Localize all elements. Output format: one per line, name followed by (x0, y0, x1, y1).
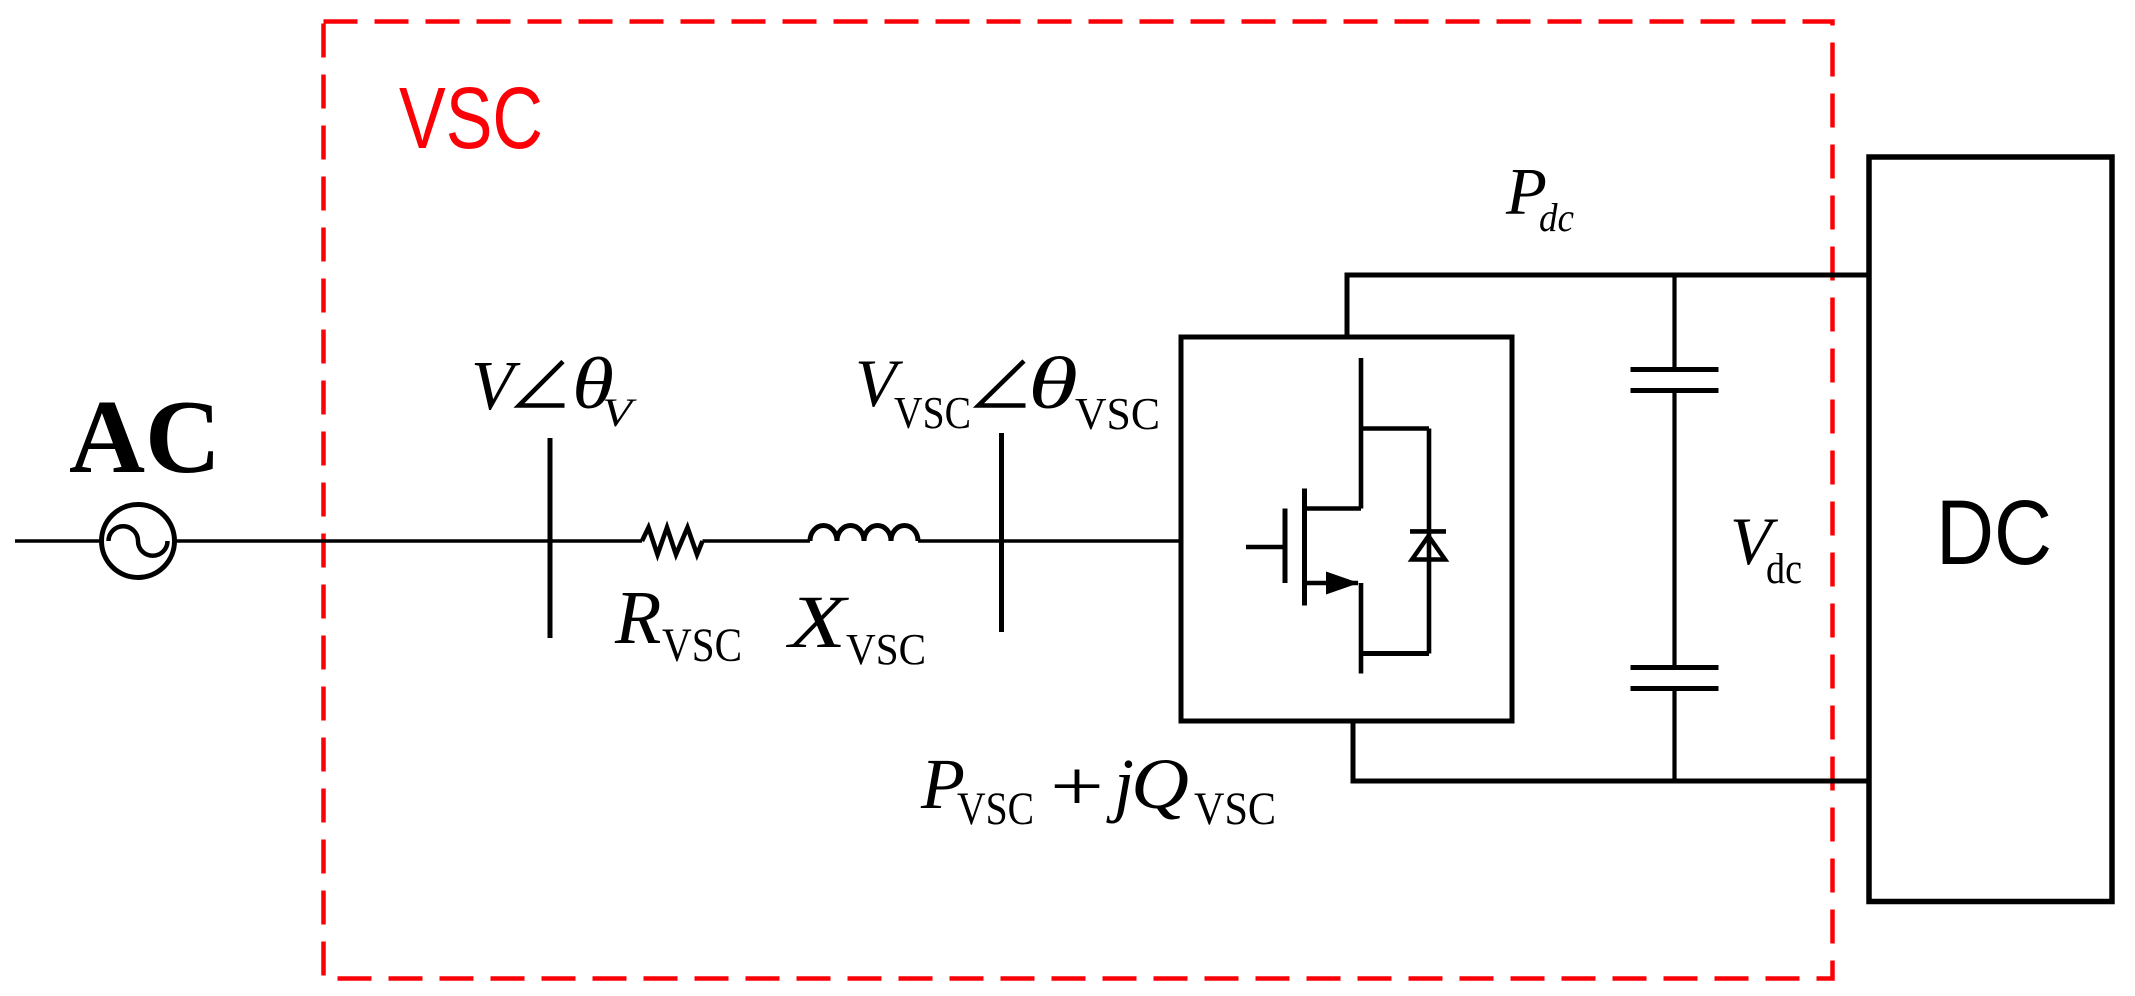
diode D1 cathode bar (1410, 529, 1446, 534)
capacitor C1 bottom plate (1631, 388, 1719, 393)
label V_VSC angle theta_VSC (855, 343, 1160, 439)
wire: resistor to inductor (703, 539, 811, 542)
diode D1 triangle (1412, 536, 1445, 560)
label P_dc (1505, 155, 1574, 241)
IGBT Q1 drain stub (1359, 358, 1364, 509)
wire: capacitor C1 to capacitor C2 (1672, 393, 1676, 666)
AC source circle (102, 505, 175, 578)
resistor R_VSC zigzag (642, 528, 703, 555)
svg-text:Q: Q (1131, 744, 1189, 824)
capacitor C1 top plate (1631, 367, 1719, 372)
svg-text:VSC: VSC (1075, 388, 1160, 439)
svg-text:VSC: VSC (894, 387, 971, 438)
svg-text:AC: AC (69, 378, 221, 495)
wire: capacitor C2 to dc- rail (1672, 691, 1676, 783)
diode D1 column (1427, 429, 1432, 654)
svg-text:R: R (614, 576, 661, 660)
DC box (1869, 157, 2112, 902)
svg-text:VSC: VSC (957, 783, 1034, 835)
svg-text:VSC: VSC (1194, 783, 1276, 835)
bus bar V (node V angle theta_V) (548, 438, 553, 638)
svg-text:θ: θ (1028, 343, 1078, 425)
IGBT gate lead (1246, 545, 1285, 550)
label P_VSC + jQ_VSC (920, 744, 1276, 835)
wire: left stub to AC source (15, 539, 102, 542)
svg-text:VSC: VSC (399, 70, 543, 167)
dc+ rail P_dc (1345, 273, 1870, 278)
wire: converter bottom to dc- rail (1351, 721, 1356, 781)
capacitor C2 bottom plate (1631, 686, 1719, 691)
wire: converter top to dc+ rail (1345, 275, 1350, 337)
label V angle theta_V (471, 343, 638, 435)
wire: source to diode bottom (1359, 651, 1429, 656)
IGBT channel bar (1302, 489, 1307, 606)
label V_dc (1730, 503, 1802, 593)
svg-text:+: + (1050, 746, 1104, 826)
IGBT source arrow (1326, 572, 1359, 595)
inductor X_VSC humps (810, 526, 918, 542)
VSC dashed boundary box (324, 22, 1833, 979)
IGBT drain horizontal (1305, 506, 1362, 511)
wire: drain junction to diode top (1359, 426, 1429, 431)
label R_VSC (614, 576, 742, 672)
svg-text:X: X (785, 581, 850, 664)
IGBT source vertical (1359, 583, 1364, 674)
capacitor C2 top plate (1631, 665, 1719, 670)
wire: dc+ rail to capacitor C1 (1672, 273, 1676, 368)
label X_VSC (785, 581, 926, 674)
svg-text:dc: dc (1539, 195, 1574, 240)
AC source sine wave (109, 526, 168, 556)
svg-text:dc: dc (1766, 546, 1802, 593)
wire: AC source to resistor (174, 539, 642, 542)
converter U1 box (1181, 337, 1512, 721)
svg-text:DC: DC (1936, 482, 2052, 584)
IGBT gate bar (1283, 509, 1288, 584)
wire: inductor to converter (918, 539, 1181, 542)
svg-text:VSC: VSC (846, 625, 926, 674)
dc- rail (1351, 779, 1870, 784)
svg-text:VSC: VSC (662, 619, 742, 672)
bus bar V_VSC (node V_VSC angle theta_VSC) (999, 433, 1004, 632)
IGBT source horizontal (1305, 581, 1359, 586)
svg-text:V: V (471, 348, 521, 425)
